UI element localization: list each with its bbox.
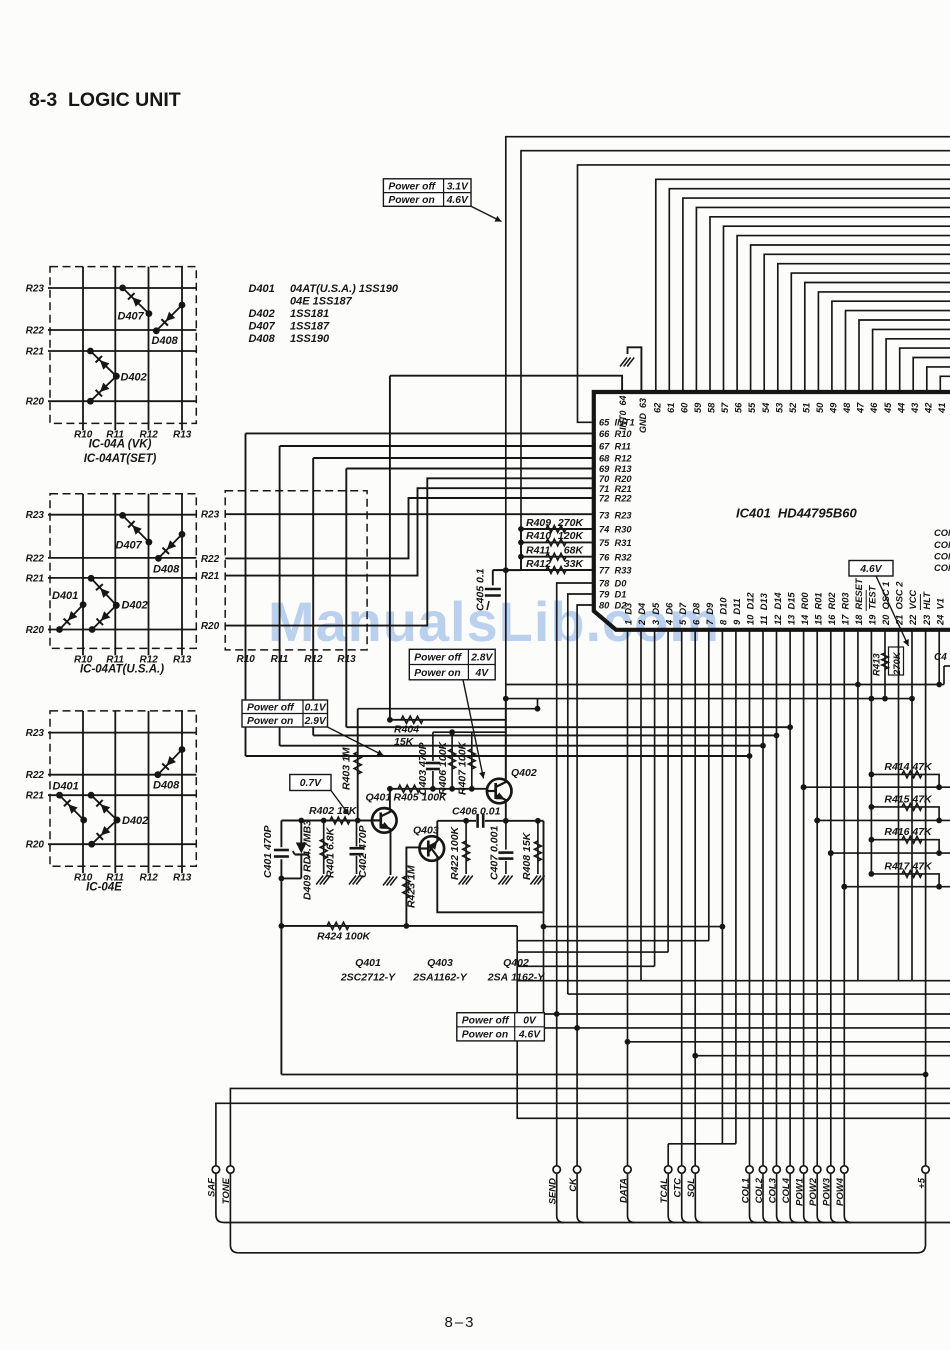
wire R403 top link — [358, 699, 538, 709]
matrix IC-04AT-USA column label R12 — [140, 654, 159, 665]
connector pin SAF — [207, 1166, 220, 1197]
matrix IC-04A column wire R10 — [82, 267, 84, 431]
svg-text:1SS190: 1SS190 — [290, 333, 330, 345]
voltage box 0.1V/2.9V — [242, 700, 328, 727]
junction Q402 emitter node — [503, 818, 509, 824]
IC401 left pin label 68 R12 — [599, 454, 632, 464]
svg-text:65 INT1: 65 INT1 — [599, 418, 635, 428]
resistor R414 47K — [871, 761, 942, 790]
IC401 bottom pin label 8 D10 — [719, 597, 729, 625]
IC401 bottom pin label 17 R03 — [841, 592, 851, 625]
svg-text:60: 60 — [680, 402, 690, 413]
matrix IC-04A row label R20 — [26, 397, 45, 408]
matrix IC-04E column wire R13 — [181, 711, 183, 873]
connector pin POW3 — [822, 1166, 835, 1206]
connector pin TONE — [221, 1166, 234, 1204]
svg-text:R417 47K: R417 47K — [884, 860, 933, 872]
matrix IC-04A diode D402a — [87, 348, 120, 380]
svg-text:COM: COM — [934, 528, 950, 538]
matrix IC-04AT-USA label D401 — [52, 590, 78, 602]
IC401 top pin label 64 INT0 — [618, 395, 628, 430]
leader to Q401 base (0.7V box) — [331, 791, 349, 816]
matrix IC-04AT-USA diode D402b — [89, 602, 120, 633]
IC401 bottom pin label 13 D15 — [786, 592, 796, 625]
matrix IC-04A row wire R23 — [48, 287, 196, 289]
wire SAF riser — [216, 1103, 950, 1166]
svg-text:48: 48 — [842, 402, 852, 414]
junction pin10 rail — [747, 753, 753, 759]
svg-text:13 D15: 13 D15 — [786, 592, 796, 625]
svg-text:R404: R404 — [394, 724, 419, 736]
svg-text:C407 0.001: C407 0.001 — [489, 826, 501, 880]
matrix IC-04AT-USA caption IC-04AT(U.S.A.) — [80, 663, 164, 675]
wire bus loop outer-3 (INT1 net) — [578, 165, 950, 422]
IC401 top pin label 53 — [774, 402, 784, 413]
wire IC pin 5 to CTC — [681, 630, 683, 1166]
resistor R409 270K — [518, 517, 594, 533]
svg-text:50: 50 — [815, 402, 825, 413]
svg-text:56: 56 — [734, 402, 744, 413]
matrix IC-04A column wire R12 — [148, 267, 150, 431]
svg-text:77 R33: 77 R33 — [599, 566, 632, 576]
svg-text:54: 54 — [761, 402, 771, 413]
svg-text:17 R03: 17 R03 — [841, 592, 851, 625]
IC401 top pin label 50 — [815, 402, 825, 413]
IC401 left pin label 73 R23 — [599, 511, 632, 521]
transistor Q403 — [420, 836, 445, 861]
wire COL3 stub — [777, 1173, 784, 1222]
wire POW4 stub — [844, 1173, 851, 1222]
wire +5 stub — [918, 1173, 926, 1253]
matrix IC-04AT-USA row label R20 — [26, 625, 45, 636]
wire bus loop outer-2 (R409 net) — [493, 151, 950, 570]
IC401 bottom pin label 24 V1 — [935, 598, 945, 626]
resistor R413 270K — [872, 630, 904, 702]
junction pin13 rail — [787, 724, 793, 730]
wire IC pin 15 to POW2 — [814, 630, 820, 1166]
svg-text:61: 61 — [666, 403, 676, 413]
IC401 bottom pin label 11 D13 — [759, 592, 769, 625]
transistor type list Q403 — [412, 957, 468, 984]
svg-text:C403 470P: C403 470P — [417, 741, 429, 795]
matrix IC-04A label D407 — [118, 311, 145, 323]
wire bus loop pin 41 — [940, 376, 950, 392]
svg-text:24 V1: 24 V1 — [935, 598, 945, 626]
matrix IC-04E row label R23 — [26, 728, 45, 739]
wire rail R01 (pin15) — [814, 818, 950, 824]
matrix IC-04A caption IC-04AT(SET) — [84, 453, 157, 465]
svg-text:C405 0.1: C405 0.1 — [475, 568, 487, 611]
svg-text:44: 44 — [896, 402, 906, 414]
resistor R403 1M — [341, 709, 362, 821]
parts list row D401 — [249, 283, 399, 295]
connector pin DATA — [618, 1166, 631, 1203]
svg-text:270K: 270K — [557, 517, 585, 529]
wire stair h1 — [544, 926, 723, 928]
svg-text:R407 100K: R407 100K — [457, 740, 469, 795]
svg-text:23 HLT: 23 HLT — [922, 591, 932, 626]
matrix IC-04E diode D401 — [56, 792, 87, 824]
voltage box 4.6V — [849, 561, 893, 577]
svg-text:R412: R412 — [526, 558, 551, 570]
label Q401 — [366, 792, 392, 804]
svg-text:Q403: Q403 — [413, 825, 439, 837]
svg-text:12 D14: 12 D14 — [773, 592, 783, 625]
wire stair drop (Q403 emitter net) — [541, 912, 547, 1028]
matrix IC-04AT-USA row wire R23 — [48, 514, 196, 516]
capacitor C402 470P — [350, 821, 370, 879]
svg-text:15 R01: 15 R01 — [813, 592, 823, 625]
svg-text:14 R00: 14 R00 — [800, 592, 810, 625]
svg-text:76 R32: 76 R32 — [599, 552, 632, 562]
svg-text:R23: R23 — [201, 510, 220, 521]
wire DATA stub — [628, 1173, 635, 1222]
wire rail R02 (pin16) — [828, 850, 950, 856]
IC401 bottom pin label 3 D5 — [651, 602, 661, 625]
matrix IC-04E diode D408 — [154, 746, 185, 778]
wire matrix row R20 to IC pin 70 — [225, 478, 594, 625]
wire IC pin 19 — [869, 630, 875, 874]
IC401 left pin label 79 D1 — [599, 590, 626, 600]
IC401 top pin label 59 — [693, 402, 703, 413]
junction R404-R403-INT node — [387, 717, 393, 723]
wire IC pin 2 — [640, 630, 642, 981]
IC401 left pin label 65 INT1 — [599, 418, 635, 428]
svg-text:R22: R22 — [26, 326, 45, 337]
junction C403 bottom — [430, 786, 436, 792]
wire IC pin 80 D2 to CK — [574, 605, 594, 1166]
wire IC pin 6 to SQL — [692, 630, 698, 1166]
wire COL1 stub — [750, 1173, 757, 1222]
wire IC pin 22 — [911, 630, 913, 981]
wire Q401 base rail — [281, 820, 372, 822]
matrix IC-04A label D402 — [121, 372, 147, 384]
wire matrix column R12 vertical — [312, 458, 314, 735]
wire C406 rail — [437, 820, 543, 822]
IC401 left pin label 74 R30 — [599, 525, 632, 535]
junction pin22 on rail V2 — [909, 696, 915, 702]
IC401 bottom pin label 16 R02 — [827, 592, 837, 625]
wire CK stub — [577, 1173, 584, 1222]
wire IC pin 11 to COL2 — [762, 630, 764, 1166]
matrix IC-04E row wire R22 — [48, 774, 196, 776]
IC401 bottom pin label 20 OSC&#160;1 — [881, 582, 891, 626]
IC401 left pin label 77 R33 — [599, 566, 632, 576]
wire rail V2 (pin19/22 net) — [506, 698, 912, 700]
matrix IC-04A column label R11 — [106, 429, 124, 440]
junction loop1 on rail V2 — [503, 696, 509, 702]
resistor R401 6.8K — [320, 821, 336, 879]
leader to Q402 base (2.8V box) — [463, 680, 485, 779]
svg-text:R413: R413 — [872, 653, 883, 676]
wire node INT vertical to R404 — [389, 376, 391, 720]
wire rail V1 (pin24 net) — [506, 684, 939, 686]
svg-text:1SS187: 1SS187 — [290, 321, 330, 333]
wire matrix row R22 to IC pin 72 — [225, 498, 594, 558]
matrix M4 row label R23 — [201, 510, 220, 521]
voltage box 0.7V — [290, 775, 331, 791]
wire Q403 base — [406, 847, 419, 864]
svg-text:R22: R22 — [26, 553, 45, 564]
ground Q401 emitter — [383, 877, 397, 886]
matrix IC-04A row label R23 — [26, 284, 45, 295]
IC401 bottom pin label 9 D11 — [732, 598, 742, 625]
IC401 right pin label COM1 — [934, 528, 950, 538]
matrix IC-04E column label R11 — [106, 872, 124, 883]
svg-text:R23: R23 — [26, 510, 45, 521]
IC401 left pin label 76 R32 — [599, 552, 632, 562]
svg-text:R423 1M: R423 1M — [406, 865, 418, 908]
svg-text:74 R30: 74 R30 — [599, 525, 632, 535]
label Q403 — [413, 825, 439, 837]
connector pin COL3 — [767, 1166, 780, 1204]
transistor type list Q402 — [487, 957, 545, 984]
svg-text:D401: D401 — [52, 590, 78, 602]
wire POW1 stub — [804, 1173, 811, 1222]
IC401 top pin label 46 — [869, 402, 879, 414]
voltage box 0V/4.6V — [457, 1013, 545, 1041]
capacitor C407 0.001 — [489, 821, 514, 880]
wire Q401 emitter — [390, 831, 392, 876]
connector pin POW1 — [795, 1166, 808, 1206]
junction R401 top — [321, 818, 327, 824]
matrix IC-04AT-USA row label R22 — [26, 553, 45, 564]
svg-text:73 R23: 73 R23 — [599, 511, 632, 521]
wire Q402 emitter — [505, 800, 507, 821]
IC401 bottom pin label 10 D12 — [746, 592, 756, 625]
wire bus h19 (0V net) — [544, 1013, 950, 1015]
connector pin COL1 — [740, 1166, 753, 1204]
svg-text:R21: R21 — [201, 571, 220, 582]
junction R406 top — [449, 729, 455, 735]
matrix IC-04E column label R13 — [173, 872, 192, 883]
wire IC pin 17 to POW4 — [841, 630, 847, 1166]
svg-text:59: 59 — [693, 402, 703, 413]
IC401 bottom pin label 22 VCC — [908, 590, 918, 626]
wire IC pin 21 — [898, 630, 900, 981]
svg-text:R410: R410 — [526, 530, 551, 542]
wire IC pin 4 — [667, 630, 669, 952]
matrix IC-04AT-USA label D408 — [153, 564, 180, 576]
matrix IC-04AT-USA row wire R22 — [48, 557, 196, 559]
matrix IC-04A column wire R11 — [114, 267, 116, 431]
matrix IC-04AT-USA diode D408 — [155, 531, 185, 562]
resistor R410 120K — [518, 530, 594, 546]
wire cable rail A — [224, 1222, 950, 1224]
wire bus h17 (pin2) — [517, 980, 950, 982]
wire POW3 stub — [831, 1173, 838, 1222]
resistor R417 47K — [871, 860, 942, 889]
wire IC pin 14 to POW1 — [801, 630, 807, 1166]
matrix IC-04A row label R22 — [26, 326, 45, 337]
svg-text:58: 58 — [707, 402, 717, 413]
svg-text:Q402: Q402 — [511, 767, 537, 779]
svg-text:57: 57 — [720, 402, 730, 413]
svg-text:8-3 LOGIC UNIT: 8-3 LOGIC UNIT — [29, 89, 181, 111]
svg-text:68 R12: 68 R12 — [599, 454, 632, 464]
wire COL4 stub — [790, 1173, 797, 1222]
wire Q403 emitter to rail — [437, 857, 543, 912]
wire IC pin 1 to DATA — [625, 630, 631, 1166]
wire bus loop pin 47 — [859, 320, 950, 392]
wire Q401 collector — [389, 789, 391, 810]
wire TONE riser — [230, 1088, 950, 1165]
svg-text:R402 15K: R402 15K — [309, 805, 358, 817]
svg-text:R20: R20 — [26, 397, 45, 408]
IC401 left pin label 67 R11 — [599, 442, 631, 452]
svg-text:R411: R411 — [526, 545, 550, 557]
junction pin18 on rail V1 — [855, 682, 861, 688]
matrix IC-04E column wire R10 — [82, 711, 84, 873]
svg-text:46: 46 — [869, 402, 879, 414]
matrix M4 column label R11 — [271, 654, 289, 665]
IC401 top pin label 57 — [720, 402, 730, 413]
matrix IC-04A row label R21 — [26, 347, 45, 358]
svg-text:Power off: Power off — [388, 181, 436, 192]
svg-text:D408: D408 — [152, 335, 179, 347]
junction pin11 rail — [760, 743, 766, 749]
svg-text:IC-04E: IC-04E — [86, 881, 122, 893]
wire Q402 collector — [505, 699, 507, 783]
op-amp/IC U401 body outline IC401 — [594, 392, 950, 630]
wire CTC stub — [682, 1173, 689, 1222]
matrix IC-04E column label R10 — [74, 872, 93, 883]
wire bus loop pin 49 — [832, 301, 950, 392]
wire rail R00 (pin14) — [801, 784, 950, 790]
ground symbol GND63 — [620, 358, 634, 367]
svg-text:Power on: Power on — [247, 716, 293, 727]
wire stair h3 (pin4 TCAL) — [517, 951, 668, 953]
svg-text:R403 1M: R403 1M — [341, 747, 353, 790]
svg-text:1 D3: 1 D3 — [624, 602, 634, 625]
junction pin19 on rail V2 — [869, 696, 875, 702]
wire cable rail B — [238, 1252, 917, 1254]
IC401 left pin label 78 D0 — [599, 579, 627, 589]
svg-text:120K: 120K — [558, 530, 585, 542]
svg-text:IC-04AT(SET): IC-04AT(SET) — [84, 453, 157, 465]
svg-text:R23: R23 — [26, 284, 45, 295]
svg-text:16 R02: 16 R02 — [827, 592, 837, 625]
svg-text:22 VCC: 22 VCC — [908, 590, 918, 626]
svg-text:0V: 0V — [523, 1015, 537, 1026]
wire bus h22 (SQL net) — [695, 1055, 950, 1057]
svg-text:19 TEST: 19 TEST — [868, 584, 878, 625]
svg-text:R12: R12 — [140, 872, 159, 883]
IC401 top pin label 58 — [707, 402, 717, 413]
svg-text:Q402: Q402 — [503, 957, 529, 969]
svg-text:3.1V: 3.1V — [447, 181, 469, 192]
svg-text:52: 52 — [788, 402, 798, 413]
transistor type list Q401 — [340, 957, 396, 984]
junction R422 top — [463, 818, 469, 824]
wire IC pin 66 R10 horizontal — [246, 432, 594, 434]
svg-text:R401 6.8K: R401 6.8K — [325, 826, 337, 878]
matrix IC-04A column label R12 — [140, 429, 159, 440]
svg-text:69 R13: 69 R13 — [599, 464, 632, 474]
wire node R13 to pin13 COL4 rail — [346, 726, 790, 728]
wire C403/R406/R407 top link — [433, 731, 506, 733]
svg-text:D409 RD4.7MB3: D409 RD4.7MB3 — [302, 820, 314, 900]
matrix IC-04E diode D402a — [88, 792, 121, 824]
svg-text:R21: R21 — [26, 347, 45, 358]
parts list row D402 — [249, 308, 330, 320]
matrix IC-04A label D408 — [152, 335, 179, 347]
wire bus h21 (DATA net) — [628, 1041, 950, 1043]
matrix IC-04A column wire R13 — [181, 267, 183, 431]
matrix IC-04A row wire R21 — [48, 350, 196, 352]
svg-text:R422 100K: R422 100K — [449, 825, 461, 880]
svg-text:33K: 33K — [564, 558, 585, 570]
matrix IC-04AT-USA column label R13 — [173, 654, 192, 665]
svg-text:2.8V: 2.8V — [470, 653, 493, 664]
IC401 bottom pin label 7 D9 — [705, 602, 715, 625]
svg-text:R416 47K: R416 47K — [884, 826, 933, 838]
wire bus loop pin 42 — [927, 367, 950, 392]
wire IC pin 18 — [857, 630, 859, 981]
matrix IC-04AT-USA dashed box — [50, 494, 196, 649]
svg-text:COM: COM — [934, 552, 950, 562]
connector pin +5 — [916, 1166, 929, 1189]
svg-text:D408: D408 — [153, 780, 180, 792]
connector pin CK — [568, 1166, 581, 1192]
matrix IC-04AT-USA diode D402a — [88, 575, 120, 609]
wire node R11 to pin11 COL2 rail — [280, 745, 763, 747]
wire bus loop pin 46 — [873, 329, 950, 392]
resistor R408 15K — [521, 821, 541, 880]
matrix IC-04A diode D408 — [153, 302, 186, 335]
IC401 left pin label 71 R21 — [599, 484, 632, 494]
svg-text:2.9V: 2.9V — [304, 716, 327, 727]
ground R422 — [459, 876, 473, 885]
svg-text:D401: D401 — [53, 781, 79, 793]
svg-text:C406 0.01: C406 0.01 — [452, 806, 501, 818]
junction R403 link — [535, 706, 541, 712]
svg-text:4.6V: 4.6V — [446, 195, 469, 206]
svg-text:4V: 4V — [474, 668, 489, 679]
junction R407 bottom — [469, 786, 475, 792]
wire bus loop pin 60 — [683, 198, 950, 392]
matrix IC-04AT-USA column wire R13 — [181, 494, 183, 656]
resistor R416 47K — [871, 826, 942, 856]
svg-text:R20: R20 — [26, 625, 45, 636]
wire IC pin 79 D1 — [568, 594, 594, 994]
junction C406 rail right — [535, 818, 541, 824]
IC401 top pin label 62 — [652, 402, 662, 413]
matrix IC-04E row label R20 — [26, 840, 45, 851]
matrix IC-04AT-USA column label R11 — [106, 654, 124, 665]
wire matrix row R23 to IC pin 73 — [225, 513, 594, 515]
svg-text:C402 470P: C402 470P — [357, 824, 369, 878]
junction pin12 rail — [774, 733, 780, 739]
matrix IC-04AT-USA diode D407 — [119, 512, 152, 545]
wire IC pin 24 — [938, 630, 940, 685]
capacitor C406 0.01 — [452, 806, 501, 828]
IC401 top pin label 52 — [788, 402, 798, 413]
svg-text:R22: R22 — [26, 770, 45, 781]
IC401 left pin label 75 R31 — [599, 538, 632, 548]
svg-text:18 RESET: 18 RESET — [854, 577, 864, 625]
IC401 top pin label 55 — [747, 402, 757, 413]
wire bus loop pin 50 — [818, 292, 950, 392]
wire bus loop pin 61 — [669, 189, 950, 392]
wire C406 rail drop — [543, 821, 545, 913]
IC401 bottom pin label 6 D8 — [692, 602, 702, 625]
svg-text:70 R20: 70 R20 — [599, 474, 632, 484]
svg-text:GND 63: GND 63 — [638, 398, 648, 433]
svg-text:R13: R13 — [173, 654, 192, 665]
junction Q401 collector node — [387, 786, 393, 792]
svg-text:51: 51 — [801, 403, 811, 413]
